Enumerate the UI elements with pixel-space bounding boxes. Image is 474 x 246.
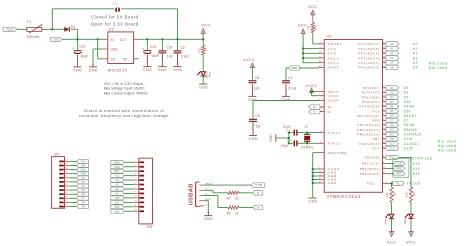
svg-text:JP7: JP7 — [54, 152, 60, 156]
svg-text:D2: D2 — [71, 25, 75, 29]
svg-text:UVCC: UVCC — [243, 58, 256, 62]
svg-text:C8: C8 — [255, 76, 259, 80]
svg-text:GND: GND — [143, 68, 152, 72]
svg-text:GND: GND — [269, 134, 273, 142]
svg-text:PC7: PC7 — [373, 146, 381, 150]
svg-text:1uF: 1uF — [256, 125, 262, 129]
svg-text:A3: A3 — [390, 56, 394, 60]
svg-text:VCC: VCC — [387, 239, 397, 244]
svg-text:AREF: AREF — [328, 66, 340, 70]
svg-text:PB0(SS): PB0(SS) — [364, 156, 380, 160]
svg-text:RST: RST — [115, 170, 120, 173]
svg-text:C4: C4 — [287, 139, 291, 143]
svg-text:A4: A4 — [413, 61, 419, 65]
svg-text:TXO: TXO — [81, 160, 86, 163]
svg-text:Not used: Not used — [429, 61, 448, 65]
svg-text:VCCIN: VCCIN — [6, 30, 13, 32]
svg-text:D5#: D5# — [404, 109, 411, 113]
svg-text:PD1(SDA): PD1(SDA) — [362, 95, 380, 99]
svg-text:22: 22 — [235, 197, 239, 201]
svg-text:PB2(MOSI): PB2(MOSI) — [360, 167, 380, 171]
svg-text:22: 22 — [235, 211, 239, 215]
svg-text:PE2(HWB): PE2(HWB) — [328, 151, 348, 155]
svg-text:Closed for 5V Board: Closed for 5V Board — [91, 15, 138, 20]
svg-text:VCC: VCC — [201, 23, 211, 28]
svg-text:PF4(ADC4): PF4(ADC4) — [358, 56, 380, 60]
svg-text:F1: F1 — [27, 20, 31, 24]
svg-text:500mA: 500mA — [27, 35, 40, 39]
svg-text:D+: D+ — [328, 105, 334, 109]
svg-text:D-: D- — [328, 110, 333, 114]
svg-text:BP: BP — [123, 57, 127, 61]
svg-text:UCAP: UCAP — [328, 99, 340, 103]
svg-text:PB6(ADC13): PB6(ADC13) — [357, 133, 380, 137]
svg-text:0.1uF: 0.1uF — [288, 87, 296, 91]
svg-text:A5: A5 — [413, 66, 419, 70]
svg-text:MIC5219: MIC5219 — [108, 67, 128, 72]
svg-text:XTAL1: XTAL1 — [328, 131, 341, 135]
svg-text:AVCC: AVCC — [328, 61, 340, 65]
svg-text:D+: D+ — [313, 105, 317, 109]
svg-text:PB1(SCK): PB1(SCK) — [362, 162, 380, 166]
svg-text:VCC: VCC — [328, 47, 337, 51]
svg-text:GND: GND — [89, 69, 98, 73]
svg-text:16MHz: 16MHz — [301, 146, 314, 150]
svg-text:+: + — [72, 46, 74, 50]
svg-text:Not used: Not used — [429, 66, 448, 70]
svg-text:OUT: OUT — [120, 38, 127, 42]
svg-text:D12: D12 — [390, 143, 395, 146]
svg-text:VCC: VCC — [406, 239, 416, 244]
svg-text:PF7(ADC7): PF7(ADC7) — [358, 42, 380, 46]
svg-text:Y1: Y1 — [304, 125, 308, 129]
svg-text:Max Voltage Input: 16VDC: Max Voltage Input: 16VDC — [104, 87, 146, 91]
svg-text:330: 330 — [385, 192, 389, 197]
svg-text:D2: D2 — [404, 95, 409, 99]
svg-text:JP8: JP8 — [146, 225, 152, 229]
svg-text:D-: D- — [313, 110, 316, 114]
svg-text:SJ1: SJ1 — [112, 1, 118, 5]
svg-text:RESET: RESET — [328, 42, 343, 46]
svg-text:PD2(RXI): PD2(RXI) — [363, 86, 380, 90]
svg-text:C10: C10 — [166, 45, 172, 49]
svg-text:+: + — [142, 47, 144, 51]
svg-text:PE6: PE6 — [373, 119, 380, 123]
svg-text:D11#: D11# — [404, 137, 413, 141]
svg-text:VUSB: VUSB — [255, 183, 263, 187]
svg-text:R8: R8 — [393, 192, 397, 196]
svg-text:PF0(ADC0): PF0(ADC0) — [358, 66, 380, 70]
svg-text:GND: GND — [158, 68, 167, 72]
svg-text:Not used: Not used — [438, 140, 457, 144]
svg-text:PD3(TXO): PD3(TXO) — [362, 91, 380, 95]
svg-text:D15: D15 — [413, 162, 420, 166]
svg-text:GND: GND — [204, 217, 213, 221]
svg-text:SCK: SCK — [396, 163, 401, 166]
svg-text:VCC: VCC — [298, 23, 308, 28]
svg-text:GND: GND — [114, 166, 120, 169]
svg-text:U2: U2 — [109, 28, 114, 32]
svg-text:1uF: 1uF — [254, 87, 260, 91]
svg-text:UVCC: UVCC — [328, 94, 340, 98]
svg-text:A2: A2 — [413, 52, 419, 56]
svg-text:GND: GND — [80, 173, 86, 176]
svg-text:D+: D+ — [257, 206, 261, 210]
svg-text:Not used: Not used — [438, 144, 457, 148]
svg-text:PD7(ADC10): PD7(ADC10) — [357, 114, 380, 118]
svg-text:PD0(SCL): PD0(SCL) — [362, 100, 380, 104]
svg-text:10K: 10K — [314, 25, 318, 30]
svg-text:U3: U3 — [326, 35, 331, 39]
svg-text:D9#/A9: D9#/A9 — [404, 128, 417, 132]
svg-text:A4: A4 — [390, 61, 394, 65]
svg-text:PD6(ADC9): PD6(ADC9) — [359, 142, 380, 146]
svg-text:MISO: MISO — [396, 173, 402, 176]
svg-text:VCC: VCC — [328, 52, 337, 56]
svg-text:PF6(ADC6): PF6(ADC6) — [358, 47, 380, 51]
svg-text:A0: A0 — [390, 42, 394, 46]
svg-text:C19: C19 — [79, 45, 85, 49]
svg-text:C2: C2 — [286, 129, 290, 133]
svg-text:PD4(ADC8): PD4(ADC8) — [359, 105, 380, 109]
svg-text:A0: A0 — [413, 42, 419, 46]
svg-text:Open for 3.3V Board: Open for 3.3V Board — [91, 21, 139, 26]
svg-text:TXL: TXL — [396, 182, 401, 185]
svg-text:A2: A2 — [390, 51, 394, 55]
svg-text:PC6: PC6 — [373, 109, 381, 113]
svg-text:VCC = 5V or 3.3V Output: VCC = 5V or 3.3V Output — [104, 82, 143, 86]
svg-text:ATMEGA32U4: ATMEGA32U4 — [327, 194, 362, 199]
svg-text:C13: C13 — [150, 45, 156, 49]
svg-text:D1: D1 — [404, 91, 409, 95]
svg-text:D10: D10 — [390, 133, 395, 136]
svg-text:VCC: VCC — [308, 4, 318, 9]
svg-text:D15: D15 — [115, 197, 120, 200]
svg-text:A3: A3 — [413, 56, 419, 60]
svg-text:USBAB: USBAB — [189, 183, 195, 205]
svg-text:PD5: PD5 — [367, 182, 375, 186]
svg-text:Max Current Output: 500mA: Max Current Output: 500mA — [104, 91, 148, 95]
svg-text:0.1uF: 0.1uF — [181, 55, 189, 59]
svg-text:D14: D14 — [413, 172, 420, 176]
svg-text:A1: A1 — [413, 47, 419, 51]
svg-text:D13#: D13# — [404, 146, 413, 150]
svg-text:D6#/A7: D6#/A7 — [404, 114, 417, 118]
svg-text:10uF: 10uF — [80, 55, 88, 59]
svg-text:R7: R7 — [227, 197, 231, 201]
svg-text:PB5(ADC12): PB5(ADC12) — [357, 128, 380, 132]
svg-text:A5: A5 — [390, 65, 394, 69]
svg-text:MOSI: MOSI — [396, 168, 402, 171]
svg-text:GND: GND — [328, 181, 337, 185]
svg-text:C1: C1 — [288, 76, 292, 80]
svg-text:AREF: AREF — [291, 66, 299, 70]
svg-text:Green: Green — [384, 216, 388, 224]
svg-text:AVCC: AVCC — [328, 56, 340, 60]
svg-text:330: 330 — [405, 192, 409, 197]
svg-text:GND: GND — [199, 86, 208, 90]
svg-text:GND: GND — [282, 98, 291, 102]
svg-text:GND: GND — [73, 69, 82, 73]
svg-text:PB4(ADC11): PB4(ADC11) — [357, 123, 380, 127]
svg-text:D12/A11: D12/A11 — [404, 142, 419, 146]
svg-text:GND: GND — [80, 169, 86, 172]
svg-text:C3: C3 — [180, 46, 184, 50]
svg-text:Yellow: Yellow — [403, 216, 407, 225]
svg-text:R6: R6 — [227, 211, 231, 215]
svg-text:D14: D14 — [115, 201, 120, 204]
svg-text:D10: D10 — [115, 210, 120, 213]
svg-text:D7: D7 — [404, 119, 409, 123]
svg-text:VCC: VCC — [115, 175, 120, 178]
svg-text:R9: R9 — [412, 192, 416, 196]
svg-text:D8/A8: D8/A8 — [404, 123, 415, 127]
svg-text:D11: D11 — [390, 138, 395, 141]
svg-text:resonator frequency and regula: resonator frequency and regulator voltag… — [79, 113, 170, 118]
svg-text:PB3(MISO): PB3(MISO) — [360, 172, 380, 176]
svg-text:XTAL2: XTAL2 — [328, 142, 341, 146]
svg-text:Red: Red — [208, 72, 212, 78]
svg-text:D-: D- — [257, 191, 260, 195]
svg-text:D4/A6: D4/A6 — [404, 105, 415, 109]
svg-text:GND: GND — [173, 68, 182, 72]
svg-text:D13: D13 — [390, 147, 395, 150]
svg-text:GND: GND — [249, 137, 258, 141]
svg-text:D3#: D3# — [404, 100, 411, 104]
svg-text:RAW: RAW — [54, 39, 60, 42]
svg-text:TX-LED: TX-LED — [407, 182, 421, 186]
svg-text:A1: A1 — [390, 47, 394, 51]
svg-text:RXI: RXI — [81, 165, 85, 168]
svg-text:Not used: Not used — [438, 149, 457, 153]
svg-text:C5: C5 — [256, 114, 260, 118]
svg-text:10uF: 10uF — [151, 54, 159, 58]
svg-text:EN: EN — [111, 57, 116, 61]
svg-text:D17/RX LED: D17/RX LED — [410, 157, 433, 161]
svg-text:RAW: RAW — [114, 161, 120, 164]
svg-text:D16: D16 — [115, 206, 120, 209]
svg-text:1uF: 1uF — [167, 55, 173, 59]
svg-text:PB7: PB7 — [373, 137, 380, 141]
svg-text:R11: R11 — [198, 47, 202, 53]
svg-text:GND: GND — [308, 200, 317, 204]
svg-text:1K: 1K — [204, 48, 208, 52]
svg-text:D0: D0 — [404, 86, 409, 90]
svg-text:PF1(ADC1): PF1(ADC1) — [358, 61, 380, 65]
svg-text:D16: D16 — [413, 167, 420, 171]
svg-text:GND: GND — [111, 48, 119, 52]
svg-text:PF5(ADC5): PF5(ADC5) — [358, 52, 380, 56]
svg-text:D10#/A10: D10#/A10 — [404, 133, 422, 137]
svg-text:20pf: 20pf — [281, 144, 288, 148]
